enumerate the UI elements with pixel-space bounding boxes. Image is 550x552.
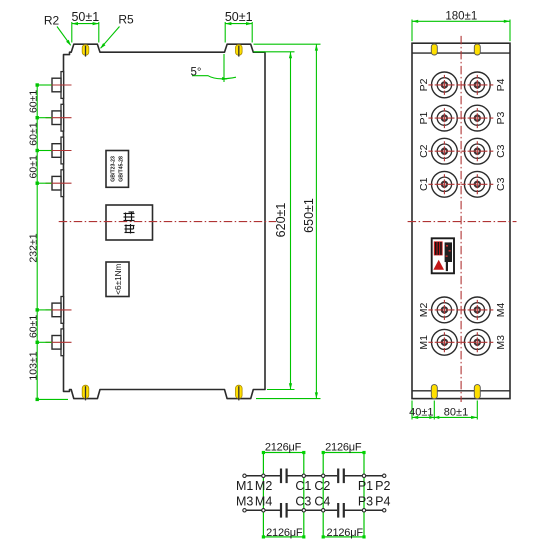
node C4 (322, 509, 325, 512)
crosshair C2 (428, 150, 460, 152)
enclosure body (side view outline) (64, 44, 266, 398)
node M4 (262, 509, 265, 512)
svg-text:C3: C3 (495, 144, 507, 158)
node C3 (302, 509, 305, 512)
svg-text:M1: M1 (418, 335, 430, 350)
stud centerline (46, 84, 72, 86)
svg-text:M3: M3 (495, 335, 507, 350)
svg-text:P4: P4 (495, 78, 507, 91)
terminal C1 (front view) (432, 171, 458, 197)
draft angle callout 5° (223, 54, 225, 82)
node M1 (243, 474, 246, 477)
svg-text:C3: C3 (495, 177, 507, 191)
crosshair C1 (428, 183, 460, 185)
svg-text:P3: P3 (495, 112, 507, 125)
svg-text:<6±1Nm: <6±1Nm (114, 263, 123, 294)
svg-text:40±1: 40±1 (409, 407, 433, 419)
terminal C2 (front view) (432, 138, 458, 164)
crosshair M4 (461, 309, 493, 311)
node P4 (383, 509, 386, 512)
svg-text:232±1: 232±1 (27, 233, 39, 262)
svg-text:P1: P1 (418, 112, 430, 125)
dim 40±1 (411, 401, 413, 420)
terminal P3 (front view) (464, 105, 490, 131)
svg-text:C2: C2 (314, 479, 330, 493)
svg-text:M4: M4 (255, 495, 272, 509)
svg-text:50±1: 50±1 (225, 10, 253, 24)
wire row A (C1-C2) (287, 475, 337, 477)
svg-text:60±1: 60±1 (27, 315, 39, 338)
svg-text:C4: C4 (314, 495, 330, 509)
mounting slot (yellow) in bottom foot at x=85.5 (82, 385, 89, 398)
front mounting slot top x=477.3 (474, 44, 480, 55)
selection highlight (green) for capacitor between x=323.2 and x=364.0 (323, 453, 364, 537)
horizontal centerline (left view) (59, 221, 276, 223)
nameplate 铭牌 (106, 205, 153, 240)
node C1 (302, 474, 305, 477)
svg-text:C1: C1 (295, 479, 311, 493)
terminal stud M1/M3 (side view) (61, 329, 64, 356)
wire row B (P3-P4) (345, 509, 385, 511)
svg-text:GB/T45-28: GB/T45-28 (119, 156, 125, 182)
mounting slot (yellow) in top tab at x=238.8 (236, 45, 243, 56)
terminal stud C2/C3 (side view) (61, 137, 64, 164)
selection highlight (green) for capacitor between x=263.4 and x=303.8 (263, 453, 303, 537)
terminal P4 (front view) (464, 72, 490, 98)
dim 650±1 (254, 43, 321, 45)
terminal P1 (front view) (432, 105, 458, 131)
fillet callout R5 (101, 27, 120, 49)
fillet callout R2 (57, 27, 71, 46)
node P1 (362, 474, 365, 477)
terminal M2 (front view) (432, 297, 458, 323)
terminal C3 (front view) (464, 138, 490, 164)
svg-text:5°: 5° (191, 66, 202, 78)
svg-text:GB/T23-23: GB/T23-23 (111, 156, 117, 182)
svg-text:60±1: 60±1 (27, 155, 39, 178)
capacitor 2126uF plates (left pair, row y=475.8) (280, 469, 282, 484)
svg-text:650±1: 650±1 (302, 198, 316, 233)
node C2 (322, 474, 325, 477)
dim 180±1 (411, 20, 413, 42)
capacitor 2126uF plates (right pair, row y=510.3) (337, 503, 339, 518)
front mounting slot bottom x=477.3 (474, 385, 480, 399)
node P2 (383, 474, 386, 477)
svg-text:60±1: 60±1 (27, 90, 39, 113)
torque label <6±1Nm (106, 262, 129, 297)
wire row A (P1-P2) (345, 475, 385, 477)
terminal stud C1/C3 (side view) (61, 170, 64, 197)
terminal M1 (front view) (432, 329, 458, 355)
dim 50±1 (tab2) (224, 22, 226, 43)
terminal M3 (front view) (464, 329, 490, 355)
capacitor 2126uF plates (left pair, row y=510.3) (280, 503, 282, 518)
terminal stud M2/M4 (side view) (61, 297, 64, 324)
terminal stud P2/P4 (side view) (61, 72, 64, 99)
crosshair P3 (461, 117, 493, 119)
svg-text:2126μF: 2126μF (265, 442, 302, 454)
stud centerline (46, 150, 72, 152)
front mounting slot top x=434.3 (431, 44, 437, 55)
crosshair C3 (461, 183, 493, 185)
crosshair M1 (428, 341, 460, 343)
dim 620±1 (254, 51, 295, 53)
crosshair M2 (428, 309, 460, 311)
svg-text:P3: P3 (358, 495, 373, 509)
terminal M4 (front view) (464, 297, 490, 323)
terminal C3 (front view) (464, 171, 490, 197)
terminal stud P1/P3 (side view) (61, 104, 64, 131)
crosshair P2 (428, 84, 460, 86)
svg-text:2126μF: 2126μF (325, 442, 362, 454)
svg-text:620±1: 620±1 (274, 203, 288, 238)
mounting slot (yellow) in top tab at x=85.5 (82, 45, 89, 56)
svg-text:180±1: 180±1 (445, 11, 477, 23)
svg-text:R5: R5 (118, 13, 134, 27)
svg-text:2126μF: 2126μF (327, 527, 364, 539)
svg-text:103±1: 103±1 (27, 351, 39, 380)
svg-text:M2: M2 (255, 479, 272, 493)
mounting slot (yellow) in bottom foot at x=238.8 (236, 385, 243, 398)
svg-text:2126μF: 2126μF (266, 527, 303, 539)
crosshair P1 (428, 117, 460, 119)
svg-text:M2: M2 (418, 302, 430, 317)
crosshair C3 (461, 150, 493, 152)
stud centerline (46, 309, 72, 311)
node M2 (262, 474, 265, 477)
wire row A (M1-M2-C1) (245, 475, 281, 477)
warning sticker (432, 238, 454, 273)
svg-text:50±1: 50±1 (71, 10, 99, 24)
dimension chain line (left) (36, 85, 38, 399)
svg-text:80±1: 80±1 (444, 407, 468, 419)
svg-text:R2: R2 (44, 14, 60, 28)
standards label plate (106, 151, 129, 188)
svg-text:M1: M1 (236, 479, 253, 493)
bottom flange line (412, 390, 510, 392)
svg-text:C3: C3 (295, 495, 311, 509)
top flange line (412, 52, 510, 54)
stud centerline (46, 341, 72, 343)
node P3 (362, 509, 365, 512)
vertical centerline (front view) (460, 36, 462, 402)
svg-text:P2: P2 (418, 78, 430, 91)
horizontal centerline (front view) (408, 221, 517, 223)
svg-text:C2: C2 (418, 144, 430, 158)
enclosure front view outline (412, 43, 510, 398)
crosshair M3 (461, 341, 493, 343)
node M3 (243, 509, 246, 512)
stud centerline (46, 182, 72, 184)
crosshair P4 (461, 84, 493, 86)
dim 50±1 (tab1) (71, 22, 73, 43)
svg-text:P4: P4 (375, 495, 390, 509)
capacitor 2126uF plates (right pair, row y=475.8) (337, 469, 339, 484)
front mounting slot bottom x=434.3 (431, 385, 437, 399)
terminal P2 (front view) (432, 72, 458, 98)
wire row B (C3-C4) (287, 509, 337, 511)
wire row B (M3-M4-C3) (245, 509, 281, 511)
svg-text:60±1: 60±1 (27, 122, 39, 145)
svg-text:M4: M4 (495, 302, 507, 317)
stud centerline (46, 117, 72, 119)
svg-text:P1: P1 (358, 479, 373, 493)
svg-text:M3: M3 (236, 495, 253, 509)
svg-text:P2: P2 (375, 479, 390, 493)
svg-text:C1: C1 (418, 177, 430, 191)
